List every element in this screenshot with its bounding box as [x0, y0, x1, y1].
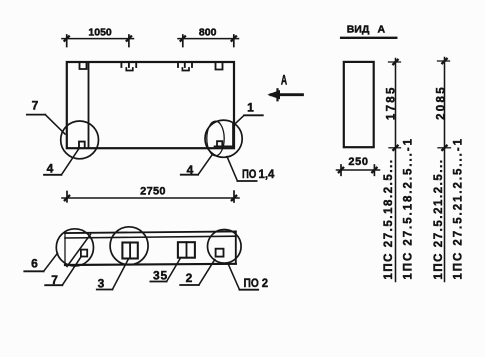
svg-text:1ПС 27.5.18.2.5...-1: 1ПС 27.5.18.2.5...-1: [403, 137, 415, 280]
svg-text:7: 7: [32, 99, 39, 113]
svg-text:2085: 2085: [436, 85, 448, 120]
svg-text:800: 800: [199, 26, 217, 38]
svg-text:2750: 2750: [140, 186, 166, 198]
svg-text:4: 4: [47, 162, 54, 176]
svg-text:1,4: 1,4: [259, 168, 275, 181]
svg-text:2: 2: [186, 271, 193, 285]
svg-text:1050: 1050: [88, 26, 112, 38]
svg-text:1: 1: [247, 101, 254, 115]
svg-text:1785: 1785: [386, 85, 398, 120]
svg-text:ПО: ПО: [244, 277, 260, 290]
svg-text:7: 7: [51, 273, 58, 287]
svg-text:35: 35: [153, 269, 168, 283]
svg-text:1ПС 27.5.21.2.5...-1: 1ПС 27.5.21.2.5...-1: [453, 137, 465, 280]
svg-text:А: А: [281, 73, 288, 89]
svg-text:6: 6: [31, 256, 38, 270]
svg-text:ПО: ПО: [242, 168, 256, 181]
svg-text:ВИД: ВИД: [347, 24, 370, 36]
svg-text:250: 250: [348, 156, 368, 168]
svg-text:А: А: [378, 24, 386, 36]
svg-text:3: 3: [98, 276, 105, 290]
svg-text:1ПС 27.5.18.2.5...: 1ПС 27.5.18.2.5...: [383, 158, 395, 279]
svg-text:1ПС 27.5.21.2.5...: 1ПС 27.5.21.2.5...: [433, 158, 445, 279]
svg-text:2: 2: [262, 277, 269, 290]
svg-text:4: 4: [187, 163, 194, 177]
